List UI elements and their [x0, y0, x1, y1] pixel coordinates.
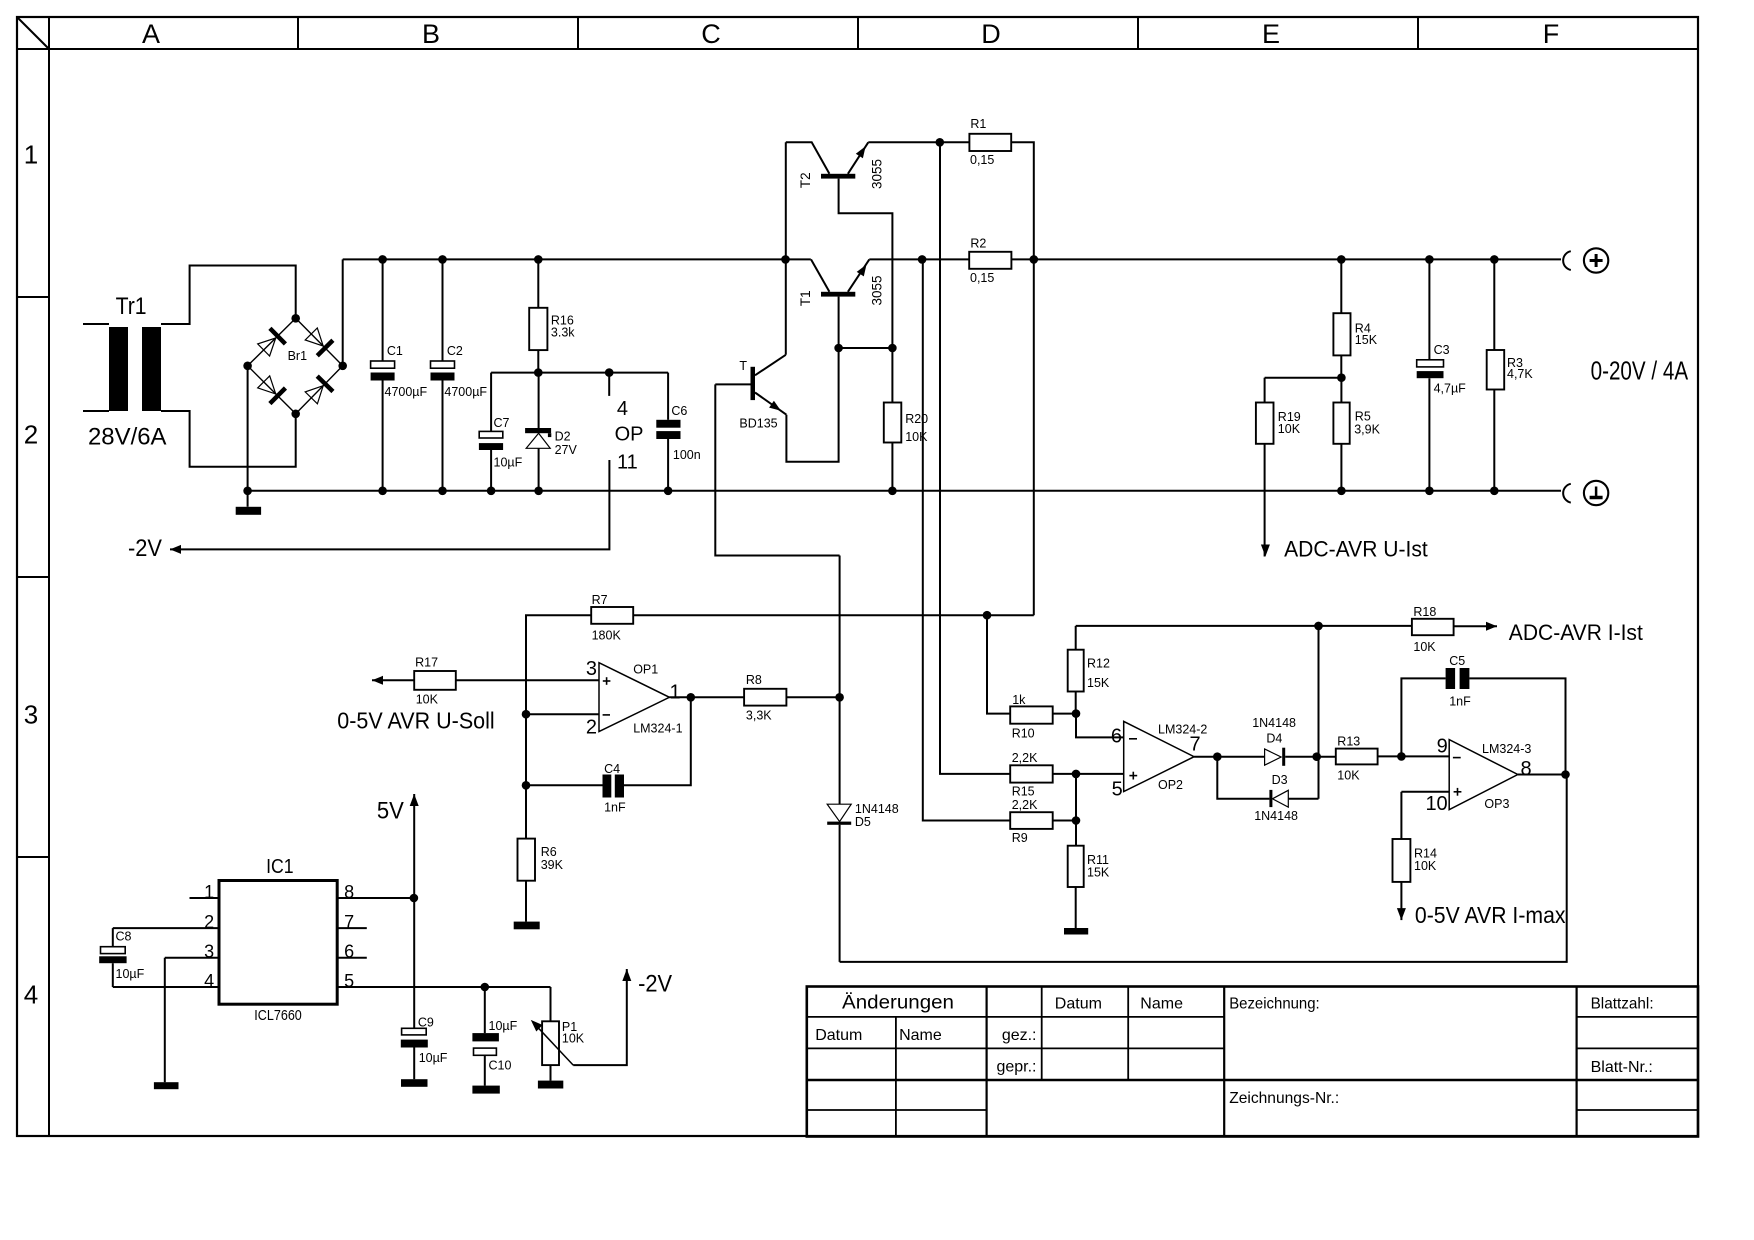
transistor T1 emitter	[848, 259, 869, 291]
wire OP3 plus input	[1401, 791, 1449, 793]
svg-text:2: 2	[204, 912, 214, 932]
svg-text:LM324-2: LM324-2	[1158, 723, 1207, 737]
resistor R7	[591, 607, 633, 624]
IC IC1 body	[219, 881, 337, 1005]
wire BD135 emitter to base node	[786, 348, 838, 462]
resistor R19	[1264, 378, 1266, 403]
svg-text:10K: 10K	[1278, 422, 1301, 436]
svg-text:0-5V AVR I-max: 0-5V AVR I-max	[1415, 902, 1566, 928]
diode D3	[1269, 790, 1272, 807]
svg-text:R20: R20	[905, 412, 928, 426]
wire R8 to base drive line	[786, 696, 839, 698]
svg-text:15K: 15K	[1355, 333, 1378, 347]
wire node down to R11	[1075, 774, 1077, 846]
capacitor C10	[484, 987, 486, 1033]
resistor R14	[1393, 839, 1411, 882]
svg-text:0,15: 0,15	[970, 153, 994, 167]
svg-text:10K: 10K	[1337, 768, 1360, 782]
svg-text:OP3: OP3	[1484, 797, 1509, 811]
wire OP1 inverting input	[526, 713, 599, 715]
svg-text:4: 4	[24, 980, 38, 1010]
zener diode D2	[538, 373, 540, 428]
svg-text:B: B	[422, 19, 440, 49]
resistor R5	[1340, 378, 1342, 403]
op-amp OP3 triangle	[1449, 740, 1518, 810]
wire BD135 base down to R8 node	[715, 384, 839, 555]
svg-text:D4: D4	[1266, 732, 1282, 746]
svg-text:C8: C8	[116, 930, 132, 944]
wire D3 D4 to node	[1318, 626, 1320, 799]
svg-text:1: 1	[670, 681, 681, 703]
title block horizontal line row3	[807, 1079, 1698, 1081]
svg-text:gepr.:: gepr.:	[996, 1059, 1036, 1076]
svg-text:R11: R11	[1087, 853, 1109, 867]
resistor R9	[1010, 812, 1052, 829]
IC1 pin 5	[337, 986, 550, 988]
svg-text:Blatt-Nr.:: Blatt-Nr.:	[1591, 1059, 1653, 1076]
svg-text:3: 3	[24, 700, 38, 730]
svg-text:C9: C9	[418, 1015, 434, 1029]
svg-text:BD135: BD135	[739, 416, 777, 430]
svg-text:6: 6	[1111, 726, 1122, 748]
svg-text:Zeichnungs-Nr.:: Zeichnungs-Nr.:	[1229, 1090, 1339, 1107]
svg-text:R12: R12	[1087, 657, 1110, 671]
ground symbol below pin3	[154, 1082, 179, 1089]
svg-text:Blattzahl:: Blattzahl:	[1591, 996, 1654, 1013]
wire T2 emitter to R1	[868, 141, 969, 143]
resistor R12	[1075, 626, 1077, 650]
wire OP1 output	[669, 696, 744, 698]
op-amp supply pin 4 stub	[608, 373, 610, 396]
svg-text:OP: OP	[615, 424, 644, 446]
resistor R17	[414, 671, 456, 690]
svg-text:1nF: 1nF	[1449, 694, 1471, 708]
bridge diode lower-right	[305, 386, 323, 404]
svg-text:7: 7	[1190, 734, 1201, 756]
wire bridge plus to +V rail	[342, 259, 344, 365]
op-amp OP1 triangle	[599, 663, 669, 732]
ground symbol below C10	[472, 1086, 499, 1094]
wire OP3 output	[1518, 774, 1566, 776]
capacitor C2	[442, 259, 444, 361]
svg-text:39K: 39K	[541, 858, 564, 872]
svg-text:R9: R9	[1012, 831, 1028, 845]
svg-text:10K: 10K	[562, 1031, 585, 1045]
wire R17 left with arrow	[372, 679, 414, 681]
IC1 pin 1	[190, 897, 220, 899]
op-amp OP2 triangle	[1124, 721, 1194, 791]
wire OP3 plus to R14	[1400, 792, 1402, 839]
frame row numbers	[24, 140, 38, 1010]
output terminal ground connector arc	[1563, 484, 1571, 503]
svg-text:9: 9	[1437, 735, 1448, 757]
svg-text:OP2: OP2	[1158, 778, 1183, 792]
wire zener node	[491, 372, 668, 374]
svg-text:C1: C1	[387, 344, 403, 358]
svg-text:3.3k: 3.3k	[551, 325, 575, 339]
svg-text:1N4148: 1N4148	[1254, 809, 1298, 823]
svg-text:3: 3	[586, 658, 597, 680]
wire R17 to OP1 plus input	[456, 679, 599, 681]
transistor T1 collector	[811, 259, 829, 291]
IC1 pin 3	[165, 957, 219, 959]
capacitor C3	[1428, 259, 1430, 359]
resistor R18	[1319, 625, 1412, 627]
svg-text:10K: 10K	[1414, 859, 1437, 873]
svg-text:6: 6	[344, 942, 354, 962]
wire Tr1 secondary bottom to bridge	[161, 411, 296, 467]
svg-text:D: D	[981, 19, 1001, 49]
svg-text:27V: 27V	[555, 443, 578, 457]
bridge diode upper-left	[258, 338, 276, 356]
ground symbol below R11	[1064, 928, 1088, 935]
svg-text:10: 10	[1425, 793, 1447, 815]
resistor R8	[744, 689, 786, 706]
svg-text:10K: 10K	[1413, 640, 1436, 654]
bridge vertex junctions	[243, 362, 252, 371]
wire output rail sense to R9	[923, 259, 1010, 820]
title block horizontal line row1	[807, 1016, 1224, 1018]
wire OP2 output	[1194, 756, 1265, 758]
resistor R4	[1340, 259, 1342, 313]
wire OP3 output to D5 bottom	[840, 775, 1567, 962]
svg-text:2,2K: 2,2K	[1012, 798, 1038, 812]
svg-text:1N4148: 1N4148	[855, 802, 899, 816]
svg-text:0-5V AVR U-Soll: 0-5V AVR U-Soll	[337, 708, 494, 734]
wire R13 to OP3 inverting	[1378, 755, 1450, 757]
resistor R3	[1493, 259, 1495, 350]
wire Tr1 primary bottom	[83, 410, 109, 412]
svg-text:15K: 15K	[1087, 866, 1110, 880]
IC1 pin 7	[337, 927, 367, 929]
capacitor C6	[667, 373, 669, 420]
potentiometer P1 wiper arrow	[534, 1023, 574, 1065]
svg-text:100n: 100n	[673, 448, 701, 462]
bridge diode lower-left	[258, 376, 276, 394]
wire R10 right to OP2 inverting	[1053, 713, 1076, 715]
wire T-emitter sense vertical upper	[939, 142, 941, 615]
capacitor C9	[402, 1028, 427, 1035]
svg-text:ADC-AVR I-Ist: ADC-AVR I-Ist	[1509, 620, 1644, 645]
svg-text:ICL7660: ICL7660	[254, 1007, 301, 1024]
frame top band line	[17, 48, 1698, 50]
wire R9 right to node	[1053, 820, 1076, 822]
transistor T1 base bar	[821, 292, 855, 297]
wire base drive vertical	[839, 556, 841, 805]
svg-text:R10: R10	[1012, 726, 1035, 740]
frame corner diagonal	[17, 17, 49, 49]
svg-text:15K: 15K	[1087, 676, 1110, 690]
arrow -2V left	[170, 545, 181, 554]
IC1 pin 2	[113, 927, 219, 929]
resistor R13	[1317, 756, 1336, 758]
svg-text:R2: R2	[970, 237, 986, 251]
IC1 pin 6	[337, 957, 367, 959]
title block vertical dividers	[895, 1017, 897, 1137]
svg-text:1k: 1k	[1012, 693, 1026, 707]
capacitor C5 feedback	[1401, 678, 1445, 756]
svg-text:4700µF: 4700µF	[444, 385, 487, 399]
IC1 pin 8	[337, 897, 414, 899]
svg-text:D5: D5	[855, 815, 871, 829]
title block horizontal line row2	[807, 1047, 1224, 1049]
frame left band line	[48, 17, 50, 1136]
ground symbol at bridge	[236, 507, 261, 515]
wire IC1 pin3 to ground	[164, 958, 166, 1082]
svg-text:5: 5	[1112, 779, 1123, 801]
capacitor C4 feedback	[624, 697, 691, 785]
svg-text:2: 2	[24, 420, 38, 450]
svg-text:IC1: IC1	[266, 856, 294, 878]
diode D5	[827, 804, 851, 821]
svg-text:R5: R5	[1355, 409, 1371, 423]
svg-text:4: 4	[617, 398, 628, 420]
svg-text:4: 4	[204, 971, 214, 991]
transistor T1 base lead	[838, 297, 840, 348]
capacitor C8	[112, 928, 114, 947]
svg-text:OP1: OP1	[633, 662, 658, 676]
wire P1 wiper to -2V arrow	[573, 969, 627, 1065]
svg-text:C2: C2	[447, 344, 463, 358]
svg-text:C4: C4	[604, 762, 620, 776]
wire 0V bus	[248, 490, 1561, 492]
diode D4	[1265, 749, 1282, 765]
svg-text:8: 8	[1521, 758, 1532, 780]
svg-text:gez.:: gez.:	[1002, 1027, 1037, 1044]
transistor T2 emitter	[848, 142, 868, 174]
svg-text:5: 5	[344, 971, 354, 991]
transformer Tr1 windings	[109, 327, 128, 411]
svg-text:D3: D3	[1272, 773, 1288, 787]
svg-text:1N4148: 1N4148	[1252, 716, 1296, 730]
wire BD135 collector to +V rail	[785, 142, 787, 354]
svg-text:2,2K: 2,2K	[1012, 751, 1038, 765]
potentiometer P1	[550, 987, 552, 1021]
svg-text:R17: R17	[415, 656, 438, 670]
svg-text:5V: 5V	[377, 797, 404, 824]
svg-text:3,3K: 3,3K	[746, 708, 772, 722]
wire output feedback from rail to R7 line	[1033, 259, 1035, 615]
svg-text:C7: C7	[494, 416, 510, 430]
svg-text:3055: 3055	[869, 159, 884, 189]
svg-text:180K: 180K	[592, 628, 622, 642]
resistor R10	[1010, 706, 1052, 723]
svg-text:R18: R18	[1413, 605, 1436, 619]
svg-text:T2: T2	[798, 172, 813, 188]
wire +V rail	[343, 258, 811, 260]
svg-text:28V/6A: 28V/6A	[88, 424, 167, 451]
svg-text:4700µF: 4700µF	[385, 385, 428, 399]
wire 5V to pin8 and C9	[413, 794, 415, 1028]
transistor T BD135 emitter	[755, 393, 786, 415]
svg-text:R15: R15	[1012, 784, 1035, 798]
wire T1 T2 base node	[839, 347, 893, 349]
transistor T2 base lead	[839, 179, 893, 348]
svg-text:A: A	[142, 19, 160, 49]
bridge diode upper-right	[305, 328, 323, 346]
svg-text:C5: C5	[1449, 654, 1465, 668]
resistor R16	[537, 259, 539, 307]
svg-text:2: 2	[586, 717, 597, 739]
svg-text:Name: Name	[899, 1027, 942, 1044]
resistor R6	[525, 785, 527, 838]
transistor T BD135 base wire	[715, 383, 750, 385]
wire Tr1 secondary top to bridge	[161, 266, 296, 325]
svg-text:10µF: 10µF	[494, 455, 523, 469]
resistor R15	[1010, 765, 1052, 782]
svg-text:Br1: Br1	[288, 349, 308, 363]
svg-text:Tr1: Tr1	[116, 293, 147, 320]
frame row dividers	[17, 297, 49, 857]
svg-text:0-20V / 4A: 0-20V / 4A	[1591, 356, 1689, 386]
wire output sense to R10	[987, 615, 1010, 713]
wire R7 line	[633, 614, 1034, 616]
svg-text:-2V: -2V	[638, 971, 672, 998]
svg-text:10µF: 10µF	[489, 1019, 518, 1033]
resistor R20	[891, 348, 893, 403]
IC1 pin 4	[113, 986, 219, 988]
wire D3 branch	[1217, 757, 1269, 799]
wire R1 right to output node	[1011, 142, 1034, 259]
wire Tr1 primary top	[83, 323, 109, 325]
junction dots on 0V bus	[378, 487, 387, 496]
title block horizontal line row4	[807, 1109, 987, 1111]
wire T-emitter sense to R15	[940, 615, 1010, 774]
ground symbol below R6	[514, 922, 540, 930]
svg-text:R1: R1	[970, 117, 986, 131]
output terminal ground circle	[1584, 481, 1608, 505]
svg-text:10K: 10K	[905, 430, 928, 444]
svg-text:LM324-1: LM324-1	[633, 722, 682, 736]
svg-text:C6: C6	[671, 404, 687, 418]
svg-text:F: F	[1543, 19, 1560, 49]
wire R4 bottom node	[1265, 377, 1342, 379]
frame column letters	[142, 19, 1559, 49]
svg-text:10µF: 10µF	[419, 1051, 448, 1065]
svg-text:4,7K: 4,7K	[1507, 367, 1533, 381]
transistor T BD135 base bar	[751, 367, 756, 400]
svg-text:R7: R7	[592, 593, 608, 607]
output terminal plus circle	[1584, 248, 1608, 272]
ground symbol below C9	[401, 1079, 428, 1087]
svg-text:Bezeichnung:: Bezeichnung:	[1229, 996, 1320, 1013]
capacitor C1	[382, 259, 384, 361]
svg-text:1: 1	[24, 140, 38, 170]
svg-text:8: 8	[344, 882, 354, 902]
svg-text:R8: R8	[746, 673, 762, 687]
svg-text:Datum: Datum	[1055, 996, 1102, 1013]
wire R12 top line to I-Ist node	[1076, 625, 1319, 627]
transistor T2 base bar	[821, 174, 855, 179]
wire R7 left to inverting node	[526, 615, 591, 785]
svg-text:11: 11	[617, 452, 638, 474]
svg-text:1nF: 1nF	[604, 800, 626, 814]
ground symbol below P1	[538, 1081, 563, 1089]
svg-text:7: 7	[344, 912, 354, 932]
svg-text:LM324-3: LM324-3	[1482, 742, 1531, 756]
svg-text:Name: Name	[1140, 996, 1183, 1013]
wire bridge minus to ground bus	[247, 366, 249, 507]
svg-text:10µF: 10µF	[116, 967, 145, 981]
resistor R2	[969, 252, 1011, 269]
svg-text:C10: C10	[489, 1058, 512, 1072]
svg-text:Änderungen: Änderungen	[842, 993, 954, 1014]
svg-text:-2V: -2V	[128, 535, 162, 562]
capacitor C7	[490, 373, 492, 432]
resistor R1	[969, 134, 1011, 151]
op-amp supply pin 11 stub to -2V	[170, 460, 609, 549]
frame column dividers	[298, 17, 1418, 49]
svg-text:C: C	[701, 19, 721, 49]
bridge Br1 diamond	[248, 318, 343, 414]
svg-text:3,9K: 3,9K	[1354, 423, 1380, 437]
svg-text:0,15: 0,15	[970, 271, 994, 285]
svg-text:T1: T1	[798, 290, 813, 306]
svg-text:Datum: Datum	[815, 1027, 862, 1044]
svg-text:ADC-AVR U-Ist: ADC-AVR U-Ist	[1284, 537, 1428, 562]
wire R15 right to OP2 plus	[1053, 773, 1124, 775]
svg-text:T: T	[739, 359, 747, 373]
transistor T BD135 collector	[755, 355, 786, 376]
title block outer	[807, 987, 1698, 1137]
svg-text:4,7µF: 4,7µF	[1434, 381, 1467, 395]
svg-text:3055: 3055	[869, 275, 884, 305]
arrow ADC-AVR U-Ist	[1261, 545, 1270, 557]
svg-text:C3: C3	[1434, 343, 1450, 357]
svg-text:10K: 10K	[416, 692, 439, 706]
svg-text:1: 1	[204, 882, 214, 902]
output terminal plus connector arc	[1563, 251, 1571, 270]
svg-text:E: E	[1262, 19, 1280, 49]
transistor T2 collector	[786, 142, 830, 174]
resistor R11	[1068, 846, 1084, 887]
svg-text:3: 3	[204, 942, 214, 962]
svg-text:R13: R13	[1337, 735, 1360, 749]
svg-text:D2: D2	[555, 430, 571, 444]
junction dots on +V rail	[378, 255, 387, 264]
